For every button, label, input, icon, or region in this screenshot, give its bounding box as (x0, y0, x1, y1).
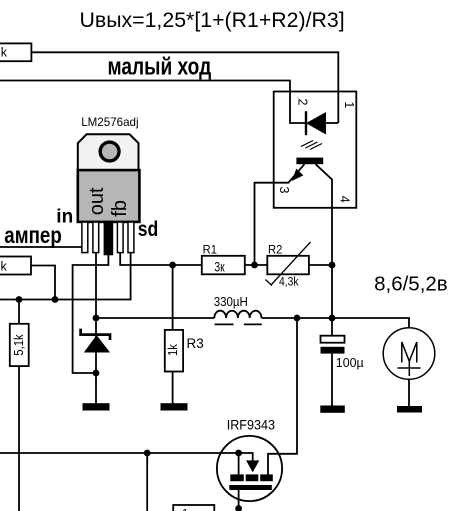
wire out node to inductor (96, 317, 214, 319)
svg-text:4: 4 (338, 196, 352, 203)
ground under R3 (161, 403, 188, 410)
svg-text:8,6/5,2в: 8,6/5,2в (374, 273, 448, 296)
svg-text:100µ: 100µ (336, 355, 365, 370)
motor M1 (383, 328, 435, 406)
wire R1 to R2 (245, 264, 267, 266)
resistor R2 4,3k variable (266, 242, 311, 286)
svg-text:1: 1 (342, 101, 356, 108)
resistor Rk2 left (0, 257, 31, 275)
junction node gate-bottom (235, 505, 242, 511)
wire from Rk1 to opto pin1 anode (31, 52, 338, 123)
source net wire (0, 452, 239, 454)
junction node sd-R4 (16, 296, 23, 303)
svg-text:k: k (1, 46, 8, 60)
wire opto pin4 down through nodes to cap (331, 179, 333, 336)
junction node source-body (235, 450, 242, 457)
U1 pin 1 in (82, 222, 88, 253)
wire Rk2 to sd net (31, 266, 55, 300)
svg-text:5,1k: 5,1k (12, 334, 27, 355)
junction node R2-opto4 (329, 262, 336, 269)
svg-text:1k: 1k (166, 344, 181, 356)
wire switch node down to MOSFET drain (268, 318, 297, 474)
U1 tab hole (100, 142, 119, 161)
svg-text:4,3k: 4,3k (279, 276, 299, 289)
junction node R1-R2-opto3 (251, 262, 258, 269)
svg-text:330µH: 330µH (214, 294, 248, 309)
wire R3 bottom to ground (172, 372, 174, 405)
svg-text:3: 3 (277, 187, 291, 194)
resistor R1 3k (202, 256, 245, 275)
svg-text:R2: R2 (268, 244, 282, 256)
svg-text:out: out (86, 187, 108, 215)
U1 pin 2 out (93, 222, 99, 253)
ground under motor (397, 406, 422, 413)
inductor L1 330uH (214, 311, 261, 325)
wire LM pin3 gnd down-left-down (73, 252, 109, 373)
U1 pin 5 sd (128, 222, 134, 253)
junction node fb-R3 (169, 262, 176, 269)
wire R4 bottom to source net (18, 366, 20, 511)
U1 body (78, 170, 140, 222)
svg-text:k: k (1, 260, 8, 274)
opto light marks (301, 141, 322, 150)
wire LM pin4 fb to R1 (120, 252, 202, 265)
svg-text:малый ход: малый ход (108, 52, 212, 80)
optocoupler U2 box (274, 92, 357, 208)
wire sd net down to R4 (18, 300, 20, 325)
wire малый ход net to opto pin2 cathode (0, 81, 305, 124)
svg-text:IRF9343: IRF9343 (227, 417, 275, 433)
junction node out-diode (93, 315, 100, 322)
ground under C1 (320, 406, 345, 413)
svg-text:3к: 3к (214, 259, 225, 275)
resistor Rk1 top-left (0, 43, 31, 61)
wire fb node down to R3 (172, 265, 174, 330)
svg-text:LM2576adj: LM2576adj (81, 116, 138, 129)
wire in to LM pin1 (0, 246, 83, 248)
svg-text:2: 2 (295, 99, 309, 106)
svg-text:sd: sd (138, 218, 159, 242)
svg-text:R1: R1 (203, 244, 217, 256)
diode VD1 schottky (81, 329, 110, 404)
opto phototransistor (255, 158, 333, 265)
wire inductor to motor (262, 318, 410, 328)
wire R2 right to opto pin4 vertical (309, 264, 332, 266)
junction node L1-drain (294, 315, 301, 322)
capacitor C1 100u (321, 336, 345, 406)
U1 pin 4 fb (117, 222, 123, 253)
transistor Q1 IRF9343 (217, 436, 282, 511)
junction node sd-Rk2 (52, 296, 59, 303)
ground under VD1 (83, 403, 110, 410)
U1 mounting tab (78, 134, 139, 170)
wire LM pin5 sd down-left (0, 252, 131, 300)
svg-text:fb: fb (109, 200, 131, 217)
U1 pin 3 gnd (104, 222, 112, 255)
svg-text:ампер: ампер (4, 223, 61, 248)
svg-text:R3: R3 (187, 336, 204, 351)
junction node L1-C1 (329, 315, 336, 322)
junction node source-gate-divider (144, 450, 151, 457)
resistor R4 5,1k (10, 324, 29, 366)
opto LED (306, 111, 338, 135)
wire gate node down (146, 453, 148, 511)
wire LM pin2 out down to diode (95, 252, 97, 337)
op-amp U1 regulator LM2576adj (78, 116, 140, 255)
svg-text:Uвых=1,25*[1+(R1+R2)/R3]: Uвых=1,25*[1+(R1+R2)/R3] (80, 8, 345, 32)
junction node gnd-diode (93, 370, 100, 377)
resistor R3 1k (165, 330, 183, 372)
resistor R5 bottom partial (173, 505, 214, 511)
